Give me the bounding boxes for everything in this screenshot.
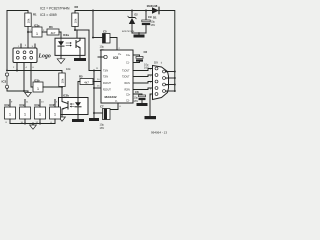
svg-text:1: 1 <box>150 69 152 71</box>
IC3 supply circle pin 7 <box>5 85 8 88</box>
LED inside (right) <box>77 98 79 103</box>
node T-in junction <box>93 70 95 72</box>
svg-text:994064 - 13: 994064 - 13 <box>151 131 167 135</box>
wire into C5 <box>93 37 103 39</box>
inverter row IC3f <box>50 100 61 124</box>
opto-coupler IC2b <box>59 94 89 115</box>
wire R5 right to pin <box>93 81 101 83</box>
connector K2 DB9 <box>150 61 169 100</box>
svg-text:C5: C5 <box>103 30 107 34</box>
resistor R6 <box>59 67 71 87</box>
node gnd pin15 <box>93 87 95 89</box>
svg-text:T1OUT: T1OUT <box>122 71 130 73</box>
svg-text:11: 11 <box>96 68 99 70</box>
svg-text:IC3 = 4069: IC3 = 4069 <box>40 13 57 17</box>
wire zener/cap common <box>132 32 146 34</box>
ground inverter row <box>30 124 37 130</box>
inverter row IC3c <box>5 100 16 124</box>
op-amp IC5 MAX232 body <box>98 50 133 103</box>
capacitor C7 <box>100 105 111 130</box>
svg-text:♀: ♀ <box>160 61 163 65</box>
wire collector tie line <box>75 29 89 31</box>
op IC3b inverter <box>33 79 43 93</box>
signal-ground bar under IC2b LED <box>72 115 84 123</box>
wire DB9 pin5 down to bar <box>150 94 153 116</box>
wire mid rail <box>7 71 62 74</box>
svg-text:T1IN: T1IN <box>103 71 108 73</box>
node at 139 <box>138 32 140 34</box>
svg-text:10k: 10k <box>61 78 65 83</box>
svg-text:10k: 10k <box>66 67 71 71</box>
wires DB9 right pins to rail <box>166 71 175 73</box>
zener diode D2 <box>122 10 138 34</box>
capacitor C6 <box>133 50 149 70</box>
svg-text:IC3: IC3 <box>2 80 7 84</box>
svg-text:10k: 10k <box>74 18 78 23</box>
signal-ground bar under IC2a transistor <box>74 55 86 61</box>
wire R5 left to IC2b LED <box>78 82 80 98</box>
ground bar bottom of spine <box>89 118 99 121</box>
wire connector stub pin1 <box>20 44 22 48</box>
svg-text:2: 2 <box>13 67 15 69</box>
svg-text:V+: V+ <box>118 52 122 56</box>
wire pin7 to gnd <box>7 88 28 91</box>
svg-text:C7: C7 <box>100 105 104 109</box>
light arrows <box>66 42 70 44</box>
node top rail tap <box>92 10 94 12</box>
svg-text:C1+: C1+ <box>126 55 131 57</box>
wire inverter row ground rail <box>10 123 55 125</box>
wire top-left rail to R1 <box>7 11 28 14</box>
svg-text:9: 9 <box>11 102 13 104</box>
wire into IC3a <box>28 31 32 33</box>
svg-text:Logo: Logo <box>38 54 51 60</box>
svg-text:16V: 16V <box>100 126 105 130</box>
svg-text:16V: 16V <box>134 99 139 103</box>
svg-text:10k: 10k <box>27 18 31 23</box>
resistor R1 <box>25 13 37 27</box>
wire D1 to right rail <box>162 11 175 92</box>
light arrows pointing left <box>71 103 74 105</box>
svg-text:4k7: 4k7 <box>84 81 89 85</box>
wire connector stub pin2 to mid rail <box>16 63 18 71</box>
svg-text:C8: C8 <box>135 90 139 94</box>
svg-text:IC3b: IC3b <box>34 79 40 83</box>
node pin4 gnd join <box>23 90 25 92</box>
node R6 bottom <box>61 86 63 88</box>
capacitor C9 <box>142 10 156 34</box>
node R2 bottom <box>74 29 76 31</box>
svg-text:5: 5 <box>56 102 58 104</box>
resistor R3 <box>47 25 59 35</box>
svg-text:IC2b: IC2b <box>63 94 69 98</box>
node C7 tap <box>93 112 95 114</box>
wire connector stub pin5 <box>34 44 36 48</box>
svg-text:IC2a: IC2a <box>63 33 69 37</box>
svg-text:R1OUT: R1OUT <box>103 83 111 85</box>
photo transistor (right) <box>75 41 77 48</box>
svg-text:C2-: C2- <box>126 101 130 103</box>
wire R1 bottom to IC3a input <box>27 27 29 49</box>
svg-text:T2IN: T2IN <box>103 77 108 79</box>
svg-text:D1: D1 <box>153 16 157 20</box>
capacitor C8 <box>133 90 148 106</box>
capacitor C5 <box>100 30 111 52</box>
svg-text:4: 4 <box>150 89 152 91</box>
wire R3 to IC2a LED anode <box>59 32 61 38</box>
wire drop to IC2a collector <box>76 30 78 38</box>
signal-ground bar zener <box>134 33 145 38</box>
IC3 supply circle pin 14 <box>5 73 8 76</box>
node junction at IC3a input <box>27 31 29 33</box>
wire C7 left to gnd spine <box>94 112 103 114</box>
wire node to IC2b collector <box>61 87 63 98</box>
svg-text:R2IN: R2IN <box>125 90 131 92</box>
svg-text:MAX232: MAX232 <box>105 95 117 99</box>
wire C5 to chip top <box>110 38 117 51</box>
svg-text:R1: R1 <box>33 13 37 17</box>
wire IC3b out to R6 node <box>43 86 62 88</box>
photo transistor (left) <box>67 102 69 110</box>
svg-text:11: 11 <box>26 102 29 104</box>
svg-text:8: 8 <box>6 122 8 124</box>
op IC3a inverter <box>30 24 46 38</box>
connector K1 <box>13 45 37 69</box>
wire right vertical to MAX232 pin <box>89 30 101 71</box>
svg-text:15: 15 <box>97 86 100 88</box>
wire connector pin4 down <box>23 63 25 92</box>
svg-text:6: 6 <box>33 67 35 69</box>
inverter row IC3d <box>20 100 31 124</box>
ground under IC2a LED <box>57 55 65 63</box>
svg-text:R2: R2 <box>75 5 79 9</box>
svg-text:IC2 = PC827/PH4N: IC2 = PC827/PH4N <box>40 7 70 11</box>
LED inside (left) <box>60 38 62 41</box>
wire connector pin6 down to IC3b input <box>31 63 33 88</box>
svg-text:10: 10 <box>97 79 100 81</box>
opto-coupler IC2a <box>55 33 85 55</box>
svg-text:R3: R3 <box>49 25 53 29</box>
svg-text:T2OUT: T2OUT <box>122 77 130 79</box>
inverter row IC3e <box>35 100 46 124</box>
svg-text:IC3a: IC3a <box>34 24 40 28</box>
svg-text:R2OUT: R2OUT <box>103 90 111 92</box>
wire R2 bottom node <box>74 27 76 31</box>
svg-text:3: 3 <box>150 82 152 84</box>
svg-text:D2: D2 <box>135 14 139 17</box>
node rail joins <box>24 123 26 125</box>
resistor R2 <box>72 5 79 26</box>
svg-text:13: 13 <box>41 102 44 104</box>
wire chip V- to C7 <box>106 103 118 110</box>
wire IC3a out to R3 <box>42 31 47 33</box>
wire ground spine <box>93 71 95 119</box>
wires chip to DB9 <box>133 69 153 71</box>
svg-text:V-: V- <box>115 99 118 103</box>
svg-text:IC3f: IC3f <box>50 103 55 107</box>
svg-text:R1IN: R1IN <box>125 83 131 85</box>
svg-text:6: 6 <box>120 106 122 108</box>
resistor R5 <box>79 75 93 85</box>
svg-text:2: 2 <box>150 76 152 78</box>
svg-text:C6: C6 <box>144 50 148 54</box>
svg-text:D9: D9 <box>154 61 158 65</box>
svg-text:C2+: C2+ <box>126 95 131 97</box>
svg-text:4k7: 4k7 <box>51 31 56 35</box>
svg-text:1N4148: 1N4148 <box>147 4 158 8</box>
ground under IC2b transistor <box>59 115 66 122</box>
node pin2 on rail <box>16 70 18 72</box>
svg-text:C1-: C1- <box>126 63 130 65</box>
svg-text:BZX79C5V6: BZX79C5V6 <box>122 31 135 33</box>
svg-text:16V: 16V <box>151 23 156 27</box>
node C5 tap <box>92 37 94 39</box>
wire top rail from R2 to zener tap <box>75 11 152 14</box>
wire left vertical rail <box>6 11 8 71</box>
svg-text:R5: R5 <box>79 75 83 79</box>
diode D1 1N4148 <box>147 4 163 20</box>
wire to pin 15 <box>94 87 101 89</box>
ground IC3 <box>25 91 32 97</box>
svg-text:IC5: IC5 <box>113 56 118 60</box>
svg-text:4: 4 <box>26 67 28 69</box>
wire VCC drop from top rail <box>92 11 94 38</box>
svg-text:C9: C9 <box>148 15 152 19</box>
svg-text:3: 3 <box>25 45 27 47</box>
